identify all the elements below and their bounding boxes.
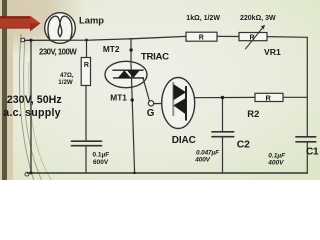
resistor R2 box (255, 93, 283, 101)
potentiometer VR1 box (239, 33, 267, 41)
svg-text:R: R (199, 35, 204, 42)
capacitor C2 plates (212, 131, 234, 133)
svg-text:0.1µF: 0.1µF (93, 152, 110, 159)
VR1 arrowhead (261, 25, 265, 29)
svg-text:a.c. supply: a.c. supply (3, 107, 61, 119)
svg-text:DIAC: DIAC (172, 135, 196, 146)
wire through triac (131, 63, 135, 173)
wire: 47ohm branch top (86, 40, 88, 58)
svg-text:MT1: MT1 (110, 92, 127, 102)
slide background (0, 0, 320, 180)
lamp filament (48, 16, 72, 41)
dark olive stripe (2, 0, 7, 180)
junction dot bottom left (29, 171, 32, 174)
svg-text:400V: 400V (194, 157, 210, 164)
grass curve 1 (19, 34, 34, 181)
junction dot C2 (221, 96, 225, 100)
svg-text:R2: R2 (247, 108, 259, 119)
wire: G to diac (154, 103, 163, 105)
capacitor C1 plates (296, 136, 316, 138)
wire: R1 to VR1 (217, 35, 239, 37)
svg-text:MT2: MT2 (103, 44, 120, 54)
MT2 terminal dot (129, 48, 132, 51)
svg-text:220kΩ, 3W: 220kΩ, 3W (240, 15, 276, 22)
svg-text:0.047µF: 0.047µF (196, 150, 220, 157)
triac bottom bar (113, 77, 144, 79)
svg-text:Lamp: Lamp (79, 15, 104, 26)
svg-text:600V: 600V (93, 159, 109, 166)
diac left bar (172, 82, 174, 116)
svg-text:400V: 400V (267, 159, 284, 166)
wire: diac to R2 (194, 96, 255, 98)
wire: VR1 to top right corner (267, 36, 307, 39)
grass curve 3 (29, 62, 52, 181)
diac bottom triangle (173, 98, 186, 115)
red arrow top stripe (0, 16, 30, 18)
svg-text:C1: C1 (306, 146, 319, 157)
svg-text:VR1: VR1 (264, 47, 281, 57)
diac top triangle (173, 84, 186, 100)
svg-text:R: R (84, 62, 89, 69)
triac left triangle (118, 70, 131, 78)
svg-text:1kΩ, 1/2W: 1kΩ, 1/2W (186, 15, 220, 22)
svg-text:G: G (147, 108, 155, 119)
VR1 arrow (246, 27, 264, 49)
wire: R2 to right rail (283, 96, 307, 98)
svg-text:230V, 100W: 230V, 100W (39, 47, 77, 56)
diac right bar (185, 86, 187, 121)
triac top bar (112, 69, 143, 71)
lamp circle (45, 13, 76, 44)
svg-text:TRIAC: TRIAC (141, 52, 169, 63)
gate line (143, 78, 149, 101)
red arrow bottom stripe (0, 27, 30, 28)
wire: C2 to bottom (222, 137, 224, 173)
red arrow head (30, 16, 41, 32)
MT1 terminal dot (131, 98, 134, 101)
resistor 47ohm box (81, 58, 90, 86)
beige left column (0, 0, 13, 180)
svg-text:1/2W: 1/2W (58, 79, 73, 86)
junction dot 47ohm branch (85, 39, 88, 42)
triac right triangle (127, 70, 140, 78)
wire: right rail lower (306, 142, 308, 173)
wire: cap to bottom (85, 146, 87, 173)
wire: 47ohm to cap (85, 86, 87, 141)
svg-text:C2: C2 (237, 139, 250, 150)
wire: left rail (30, 40, 32, 173)
svg-text:47Ω,: 47Ω, (60, 72, 74, 79)
diac ellipse (162, 78, 195, 129)
wire: terminal to R1 (top left run) (24, 36, 186, 40)
wire: bottom rail (28, 172, 308, 174)
triac body (105, 61, 147, 87)
junction dot MT1 bottom (133, 172, 136, 175)
svg-text:R: R (249, 34, 254, 41)
svg-text:R: R (266, 94, 272, 103)
capacitor 0.1uF 600V plates (72, 140, 102, 142)
svg-text:230V, 50Hz: 230V, 50Hz (7, 94, 62, 106)
decor circle (25, 172, 29, 176)
beige top-left blob (0, 0, 95, 58)
gate circle G (148, 101, 153, 106)
resistor R1 box (186, 32, 217, 41)
wire: MT2 drop (130, 38, 132, 63)
grass curve 2 (24, 40, 42, 181)
supply terminal square (21, 38, 24, 41)
red arrow head shade (30, 23, 41, 31)
wire: C2 branch (222, 98, 224, 132)
red arrow body (0, 16, 30, 28)
junction dot left rail (29, 39, 32, 42)
wire: right rail upper (306, 37, 308, 136)
